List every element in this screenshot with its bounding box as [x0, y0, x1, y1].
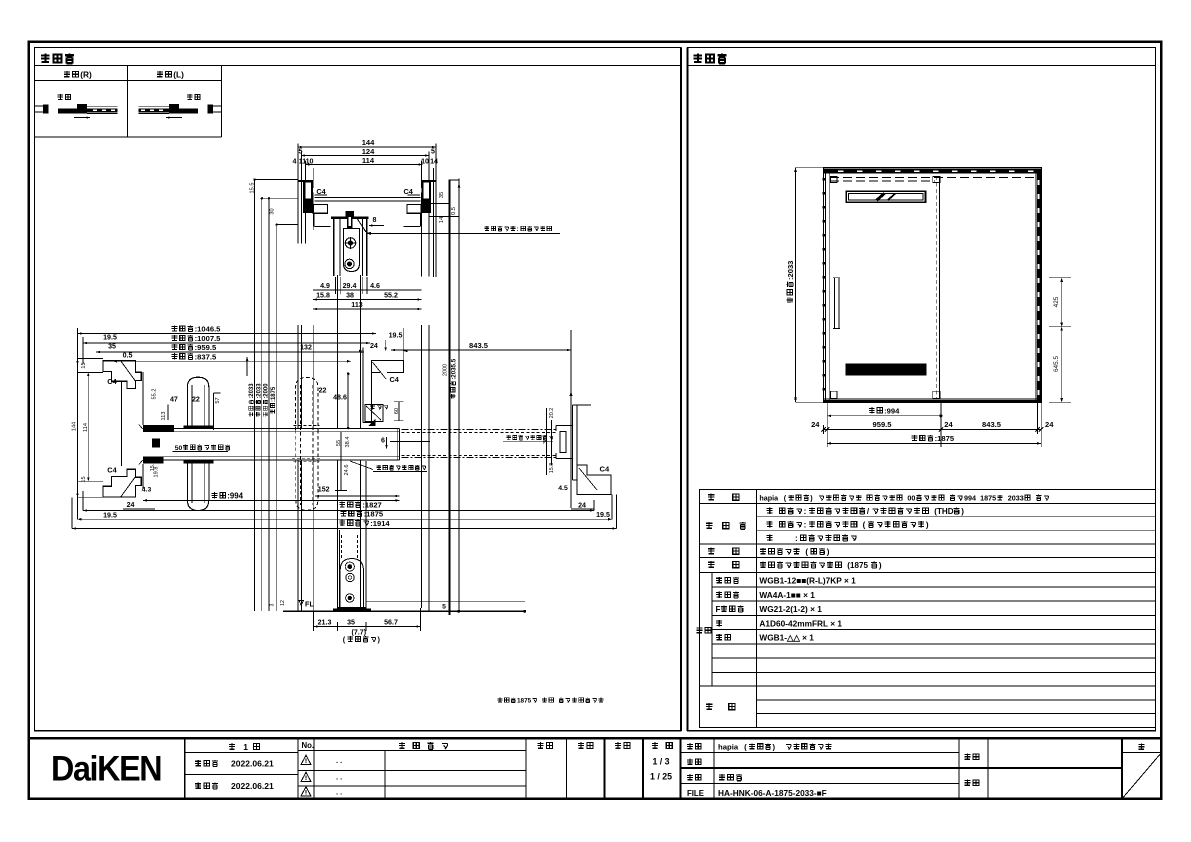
svg-text:hapia: hapia [759, 494, 779, 503]
svg-text::1875: :1875 [271, 386, 277, 402]
svg-text:4.3: 4.3 [142, 487, 152, 494]
svg-text::2000: :2000 [264, 383, 270, 399]
svg-text:124: 124 [362, 147, 375, 156]
svg-text:24: 24 [578, 501, 586, 509]
svg-text:4.6: 4.6 [370, 282, 380, 290]
svg-text:19.5: 19.5 [389, 332, 403, 340]
svg-text::959.5: :959.5 [195, 343, 217, 352]
svg-text:WA4A-1■■ × 1: WA4A-1■■ × 1 [759, 590, 815, 600]
svg-text:WG21-2(1-2) × 1: WG21-2(1-2) × 1 [759, 604, 822, 614]
svg-text:): ) [961, 507, 964, 516]
svg-text::1007.5: :1007.5 [195, 334, 222, 343]
svg-text:(: ( [805, 548, 808, 557]
svg-text:843.5: 843.5 [469, 341, 488, 350]
svg-text:114: 114 [362, 156, 375, 165]
svg-text:(THD: (THD [934, 507, 953, 516]
svg-text:24: 24 [811, 420, 820, 429]
svg-text:24.6: 24.6 [344, 465, 350, 476]
svg-text:30: 30 [270, 208, 276, 214]
svg-text:): ) [926, 520, 929, 529]
svg-text:19.5: 19.5 [103, 512, 117, 520]
svg-text:425: 425 [1053, 296, 1060, 307]
svg-text:10: 10 [421, 157, 429, 165]
svg-text:2000: 2000 [443, 364, 449, 376]
svg-text:15.8: 15.8 [549, 463, 555, 474]
svg-text::2033: :2033 [249, 383, 255, 399]
svg-text:20.2: 20.2 [549, 408, 555, 419]
svg-text:F: F [716, 605, 721, 614]
svg-text:152: 152 [318, 486, 330, 494]
svg-text:hapia: hapia [718, 743, 739, 752]
svg-text::1914: :1914 [370, 519, 390, 528]
svg-text:48.6: 48.6 [333, 393, 347, 401]
svg-text::2033: :2033 [256, 383, 262, 399]
svg-text:FILE: FILE [687, 789, 704, 798]
svg-text:(: ( [863, 520, 866, 529]
svg-text:56.7: 56.7 [384, 619, 398, 627]
svg-text::: : [804, 507, 807, 516]
svg-text:. .: . . [336, 773, 342, 782]
svg-text:22: 22 [192, 396, 200, 404]
svg-text:C4: C4 [107, 466, 117, 475]
svg-text:8: 8 [373, 216, 377, 224]
svg-text:55.2: 55.2 [384, 292, 398, 300]
svg-text:14: 14 [430, 157, 438, 165]
svg-text:DaiKEN: DaiKEN [51, 749, 161, 789]
svg-text:50: 50 [175, 445, 183, 452]
svg-text:1 / 3: 1 / 3 [652, 757, 669, 767]
svg-text::1875: :1875 [935, 434, 955, 443]
svg-text:35: 35 [347, 619, 355, 627]
svg-text:24: 24 [1045, 420, 1054, 429]
svg-text:55: 55 [336, 440, 342, 446]
svg-text:132: 132 [300, 343, 312, 351]
svg-text:1: 1 [243, 742, 248, 752]
svg-text:12: 12 [280, 600, 286, 606]
svg-text:14: 14 [439, 216, 445, 223]
svg-text:(: ( [744, 743, 747, 752]
svg-text::1875: :1875 [364, 510, 384, 519]
svg-text:55.2: 55.2 [152, 389, 158, 400]
svg-text:645.5: 645.5 [1053, 356, 1060, 372]
svg-text:No.: No. [302, 741, 315, 750]
svg-text:35: 35 [439, 192, 445, 198]
svg-text:24: 24 [370, 342, 378, 350]
svg-text:4.5: 4.5 [558, 485, 568, 492]
svg-text::2035.5: :2035.5 [450, 358, 457, 380]
svg-text:113: 113 [161, 412, 167, 421]
svg-text:24: 24 [944, 420, 953, 429]
svg-text:35: 35 [108, 343, 116, 351]
svg-text:HA-HNK-06-A-1875-2033-■F: HA-HNK-06-A-1875-2033-■F [718, 788, 827, 798]
svg-text::994: :994 [884, 406, 900, 415]
svg-text:5: 5 [442, 604, 446, 611]
svg-text:4: 4 [293, 157, 297, 165]
svg-text:2033: 2033 [1008, 494, 1024, 503]
svg-text:00: 00 [907, 494, 915, 503]
svg-text:C4: C4 [600, 465, 610, 474]
svg-text::: : [517, 226, 519, 233]
svg-text:959.5: 959.5 [873, 420, 892, 429]
svg-text:0.5: 0.5 [123, 352, 133, 360]
svg-text:(R): (R) [80, 70, 92, 80]
svg-text:994: 994 [964, 494, 976, 503]
svg-text::1827: :1827 [362, 501, 381, 510]
svg-text:): ) [827, 548, 830, 557]
svg-text:2022.06.21: 2022.06.21 [231, 759, 274, 769]
svg-text:5: 5 [299, 148, 303, 156]
svg-text:144: 144 [362, 138, 375, 147]
svg-text:WGB1-12■■(R-L)7KP × 1: WGB1-12■■(R-L)7KP × 1 [759, 576, 856, 586]
svg-text:144: 144 [72, 422, 78, 431]
svg-text:15.8: 15.8 [316, 292, 330, 300]
svg-text:19.5: 19.5 [103, 334, 117, 342]
svg-text:1 / 25: 1 / 25 [650, 772, 672, 782]
svg-text::: : [795, 534, 798, 543]
svg-text:10: 10 [306, 157, 314, 165]
svg-text:1875: 1875 [517, 698, 532, 705]
svg-text:2022.06.21: 2022.06.21 [231, 781, 274, 791]
svg-text:57: 57 [215, 397, 221, 403]
svg-text:C4: C4 [390, 375, 400, 384]
svg-text:19.8: 19.8 [154, 467, 160, 478]
svg-text:21.3: 21.3 [318, 619, 332, 627]
svg-text:24: 24 [127, 501, 135, 509]
svg-text:4.9: 4.9 [320, 282, 330, 290]
svg-text:. .: . . [336, 788, 342, 797]
svg-text:60: 60 [394, 408, 400, 414]
svg-text:C4: C4 [107, 377, 117, 386]
svg-text:(1875: (1875 [847, 561, 868, 570]
svg-text:FL: FL [305, 600, 314, 609]
svg-text:38: 38 [346, 292, 354, 300]
svg-text:843.5: 843.5 [982, 420, 1001, 429]
svg-text:A1D60-42mmFRL × 1: A1D60-42mmFRL × 1 [759, 618, 842, 628]
svg-text:15: 15 [81, 476, 87, 482]
svg-text::837.5: :837.5 [195, 352, 217, 361]
svg-text:): ) [773, 743, 776, 752]
svg-text:): ) [879, 561, 882, 570]
svg-text:5: 5 [431, 148, 435, 156]
svg-text::1046.5: :1046.5 [195, 325, 222, 334]
svg-text:WGB1-△△ × 1: WGB1-△△ × 1 [759, 633, 814, 643]
svg-text:(L): (L) [173, 70, 184, 80]
svg-text:1875: 1875 [980, 494, 996, 503]
svg-text:47: 47 [170, 396, 178, 404]
svg-text:6: 6 [381, 437, 385, 445]
svg-text:22: 22 [319, 386, 327, 394]
svg-text:19.5: 19.5 [596, 511, 610, 519]
svg-text:15.5: 15.5 [250, 183, 256, 194]
svg-text:38.4: 38.4 [345, 437, 351, 448]
svg-text:0.5: 0.5 [451, 207, 457, 215]
svg-text:114: 114 [83, 423, 89, 432]
svg-text:. .: . . [336, 756, 342, 765]
svg-text::994: :994 [227, 491, 243, 500]
svg-text:29.4: 29.4 [343, 282, 357, 290]
svg-text:(7.7): (7.7) [352, 629, 367, 637]
svg-text::2033: :2033 [786, 261, 795, 280]
svg-text:15: 15 [81, 362, 87, 368]
svg-text::: : [804, 520, 807, 529]
svg-text:3: 3 [269, 603, 275, 606]
